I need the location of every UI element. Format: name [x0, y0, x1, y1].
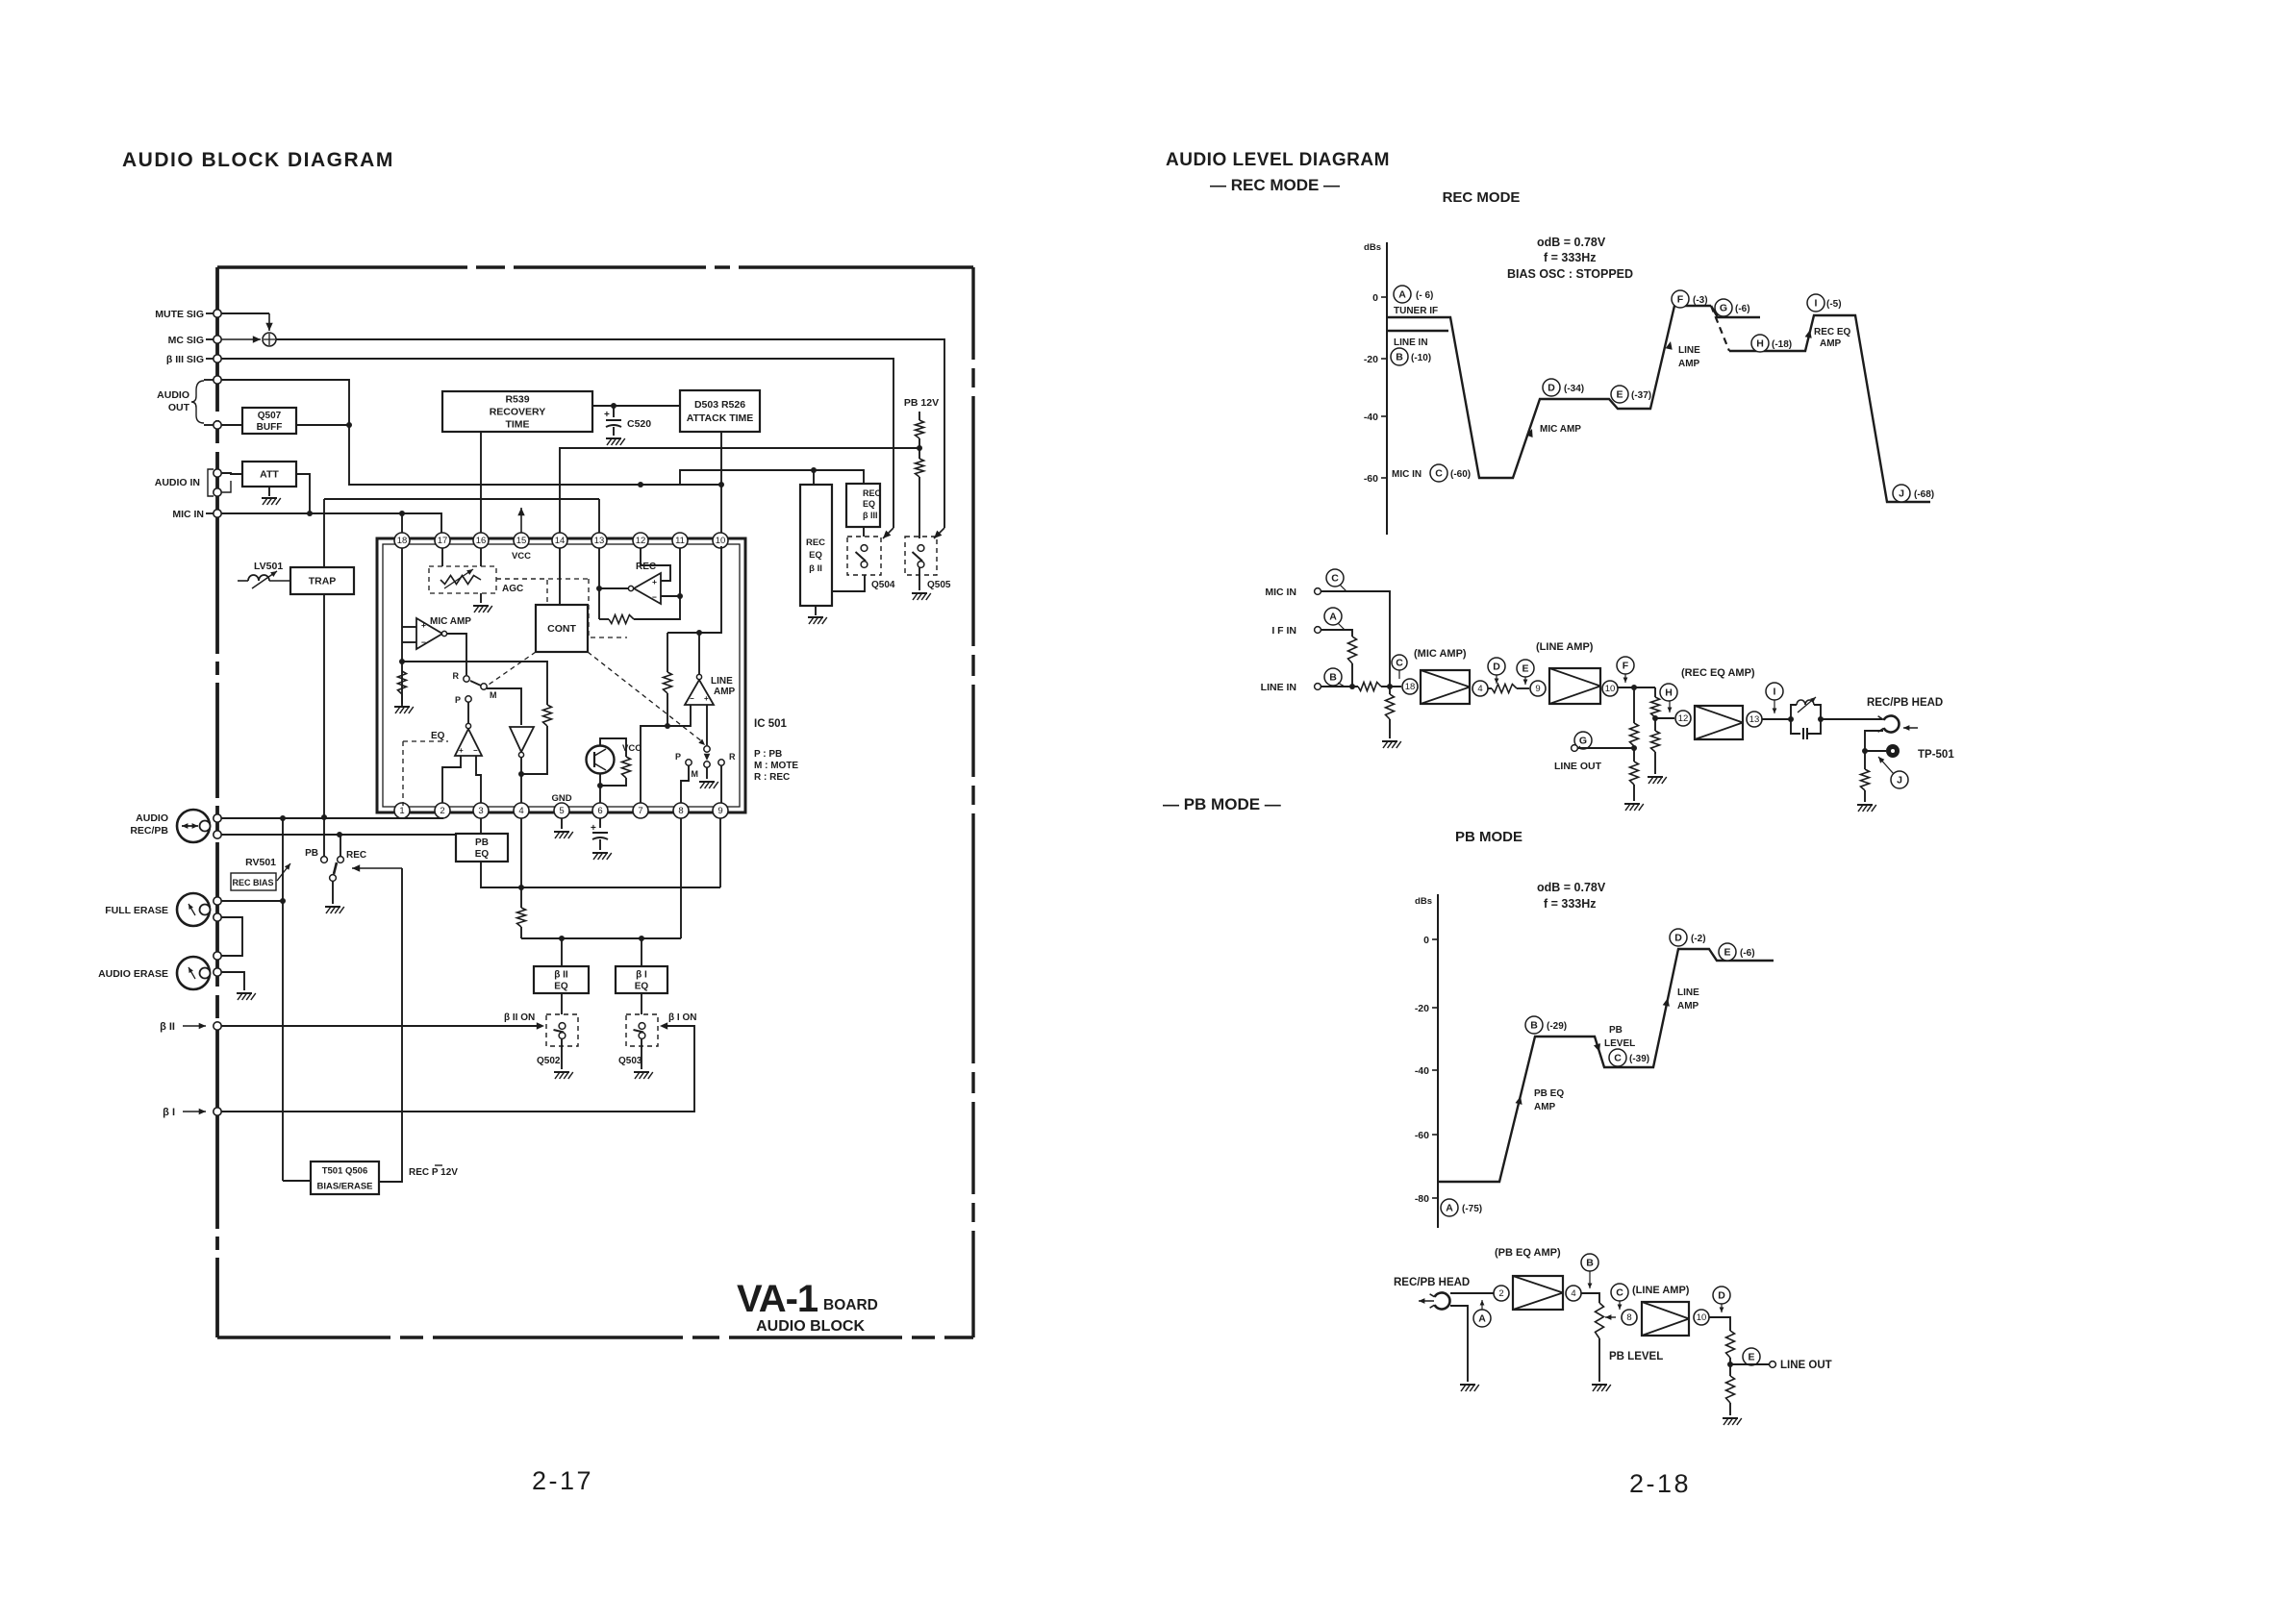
- point E (-37): [1611, 386, 1628, 403]
- svg-text:REC/PB HEAD: REC/PB HEAD: [1867, 697, 1943, 709]
- svg-text:EQ: EQ: [475, 849, 490, 860]
- svg-text:15: 15: [516, 536, 527, 546]
- capacitor under pin 6: [599, 818, 601, 828]
- svg-text:(-39): (-39): [1629, 1054, 1649, 1064]
- svg-text:+: +: [604, 410, 610, 420]
- RC parallel network (rec head peaking): [1791, 705, 1797, 719]
- svg-text:P : PB: P : PB: [754, 749, 782, 760]
- svg-text:Q502: Q502: [537, 1056, 561, 1066]
- svg-text:8: 8: [678, 806, 683, 816]
- svg-text:(-6): (-6): [1735, 304, 1750, 314]
- svg-text:ATTACK TIME: ATTACK TIME: [687, 412, 754, 424]
- svg-text:Q504: Q504: [871, 580, 895, 590]
- svg-text:H: H: [1665, 687, 1673, 699]
- pin 16 of IC501: [473, 533, 489, 548]
- wire FULL ERASE top to RV501 line: [221, 900, 283, 902]
- ground under pin 5: [561, 818, 563, 829]
- svg-text:AGC: AGC: [502, 584, 523, 594]
- svg-text:B: B: [1329, 672, 1337, 684]
- wire MIC IN into mixer: [1321, 591, 1390, 687]
- svg-text:8: 8: [1626, 1312, 1631, 1323]
- wire beta-II ON line to Q502: [221, 1025, 537, 1027]
- dashed control CONT to REC amp: [496, 578, 589, 580]
- svg-text:AUDIO: AUDIO: [136, 812, 168, 824]
- pin 18 of IC501: [394, 533, 410, 548]
- wire MUTE SIG to summing junction: [221, 312, 269, 314]
- block T501 Q506 BIAS/ERASE: [311, 1162, 379, 1194]
- divider resistor lower: [1729, 1364, 1731, 1376]
- svg-text:F: F: [1623, 661, 1629, 672]
- wire pin 4 through resistor: [520, 818, 522, 908]
- svg-text:FULL ERASE: FULL ERASE: [105, 905, 168, 916]
- svg-text:β II: β II: [554, 970, 568, 981]
- wire beta-III SIG line to Q504 control: [221, 359, 893, 528]
- svg-text:H: H: [1756, 338, 1764, 350]
- REC level trace: [1387, 306, 1711, 478]
- svg-text:LINE OUT: LINE OUT: [1554, 761, 1602, 772]
- svg-text:A: A: [1329, 612, 1337, 623]
- svg-text:M: M: [692, 769, 699, 779]
- svg-text:ATT: ATT: [260, 469, 279, 481]
- svg-text:PB LEVEL: PB LEVEL: [1609, 1351, 1663, 1362]
- R contact to pin 9: [718, 760, 724, 765]
- svg-text:(-60): (-60): [1450, 469, 1471, 480]
- wire transistor collector to VCC resistor: [600, 738, 626, 757]
- svg-text:β II: β II: [160, 1021, 175, 1033]
- svg-text:RECOVERY: RECOVERY: [490, 407, 546, 418]
- wire LINE AMP + input to M contact: [706, 705, 708, 745]
- pin 13 of IC501: [591, 533, 607, 548]
- ground under C520: [606, 437, 621, 439]
- ground under Q502: [561, 1038, 563, 1069]
- wire into pin 12: [1655, 717, 1674, 719]
- svg-text:AUDIO IN: AUDIO IN: [155, 477, 200, 488]
- svg-text:(-29): (-29): [1547, 1021, 1567, 1032]
- svg-text:AMP: AMP: [714, 687, 736, 697]
- wire AUDIO OUT upper path: [221, 380, 721, 485]
- wire REC select arrow from bias oscillator: [352, 867, 402, 869]
- capacitor C520: [613, 406, 615, 417]
- REC trace dashed to H: [1711, 306, 1729, 351]
- resistor to ground at mixer node: [1389, 687, 1391, 694]
- svg-text:AUDIO BLOCK DIAGRAM: AUDIO BLOCK DIAGRAM: [122, 149, 394, 171]
- buffer Q507: [242, 408, 296, 434]
- inverter amp: [510, 727, 534, 752]
- wire Q504 to REC EQ beta-II: [832, 575, 865, 591]
- wire MC SIG into summing junction: [221, 338, 261, 340]
- svg-text:EQ: EQ: [635, 982, 649, 992]
- svg-text:BIAS OSC : STOPPED: BIAS OSC : STOPPED: [1507, 267, 1633, 281]
- wire pin 3 into PB EQ: [480, 818, 482, 834]
- wire jog up to EQ feed line: [680, 470, 864, 485]
- wire MIC IN line to IC pins 18/17: [221, 513, 441, 533]
- point E marker and LINE OUT: [1743, 1348, 1760, 1365]
- wire feed to REC EQ beta-II box: [813, 470, 815, 485]
- svg-text:REC: REC: [636, 562, 656, 572]
- potentiometer PB LEVEL: [1596, 1303, 1604, 1338]
- block beta-II EQ: [534, 966, 589, 993]
- wire branch to pin 18: [401, 513, 403, 533]
- pin 10 (flow): [1602, 681, 1618, 696]
- svg-text:BOARD: BOARD: [823, 1297, 878, 1313]
- svg-text:f = 333Hz: f = 333Hz: [1544, 251, 1597, 264]
- svg-text:AMP: AMP: [1534, 1102, 1556, 1112]
- svg-text:+: +: [652, 577, 657, 587]
- switch Q505: [905, 537, 937, 575]
- AGC block (dashed) with variable resistor: [429, 566, 496, 593]
- resistor at transistor: [622, 757, 631, 778]
- svg-text:(- 6): (- 6): [1416, 290, 1433, 301]
- svg-text:E: E: [1616, 389, 1623, 401]
- point H marker: [1660, 684, 1677, 701]
- svg-text:β II: β II: [809, 563, 822, 574]
- pin 6 of IC501: [592, 803, 608, 818]
- svg-text:D503 R526: D503 R526: [694, 399, 745, 411]
- svg-text:0: 0: [1372, 292, 1378, 304]
- wire REC contact to head bottom line: [340, 835, 341, 857]
- svg-text:9: 9: [717, 806, 722, 816]
- wire PB EQ output line: [481, 862, 720, 887]
- svg-text:J: J: [1897, 775, 1902, 787]
- svg-text:6: 6: [597, 806, 602, 816]
- pin 11 of IC501: [672, 533, 688, 548]
- svg-text:E: E: [1748, 1352, 1754, 1363]
- svg-text:AMP: AMP: [1820, 338, 1842, 349]
- svg-text:CONT: CONT: [547, 623, 576, 635]
- svg-text:2: 2: [440, 806, 444, 816]
- svg-text:AUDIO: AUDIO: [157, 389, 189, 401]
- pin 5 of IC501: [554, 803, 569, 818]
- trap block TRAP: [290, 567, 354, 594]
- svg-text:5: 5: [559, 806, 564, 816]
- wire head to TP-501 divider: [1865, 731, 1883, 769]
- point C marker: [1326, 569, 1344, 587]
- svg-text:D: D: [1674, 933, 1682, 944]
- svg-text:M : MOTE: M : MOTE: [754, 761, 798, 771]
- pin 8 (PB flow): [1622, 1310, 1637, 1325]
- pin 3 of IC501: [473, 803, 489, 818]
- point C (-39): [1609, 1049, 1626, 1066]
- pin 9 (flow): [1530, 681, 1546, 696]
- resistor at LINE AMP input: [667, 633, 668, 672]
- svg-text:E: E: [1522, 663, 1528, 675]
- wire AUDIO IN to ATT: [221, 473, 242, 474]
- svg-text:AUDIO BLOCK: AUDIO BLOCK: [756, 1318, 865, 1335]
- svg-text:(LINE AMP): (LINE AMP): [1536, 641, 1594, 653]
- svg-text:β I: β I: [163, 1107, 175, 1118]
- svg-text:4: 4: [518, 806, 523, 816]
- svg-text:I: I: [1774, 687, 1776, 698]
- point D marker: [1488, 658, 1505, 675]
- svg-text:18: 18: [397, 536, 408, 546]
- REC trace LINE IN sub-level: [1387, 330, 1448, 332]
- pin 4 (flow): [1472, 681, 1488, 696]
- svg-text:BIAS/ERASE: BIAS/ERASE: [316, 1181, 372, 1191]
- wire pin 9 down: [719, 818, 721, 887]
- controller block CONT: [536, 605, 588, 652]
- wire pin 2 down to head line: [441, 817, 443, 819]
- svg-text:PB EQ: PB EQ: [1534, 1088, 1564, 1099]
- point B marker: [1324, 668, 1342, 686]
- svg-text:A: A: [1478, 1313, 1486, 1325]
- block R539 RECOVERY TIME: [442, 391, 592, 432]
- wire IF IN through resistor: [1321, 630, 1352, 637]
- wire pin11 internal: [679, 548, 681, 596]
- ground under Q503: [641, 1038, 642, 1069]
- svg-text:2: 2: [1498, 1288, 1503, 1299]
- svg-text:MIC IN: MIC IN: [1265, 587, 1296, 598]
- svg-text:BUFF: BUFF: [257, 422, 283, 433]
- ground under AGC: [480, 593, 482, 603]
- ground under REC EQ beta-II: [815, 606, 817, 615]
- svg-text:C: C: [1614, 1053, 1622, 1064]
- wire beta-I ON line to Q503: [221, 1026, 694, 1112]
- resistor on pin18 node: [398, 671, 407, 694]
- svg-text:0: 0: [1423, 935, 1429, 946]
- wire P contact to EQ amp: [467, 702, 469, 723]
- svg-text:+: +: [704, 694, 709, 703]
- wire MIC AMP output to R contact: [447, 634, 466, 675]
- pin 18 (flow): [1402, 679, 1418, 694]
- svg-text:−: −: [473, 746, 478, 755]
- wire after LINE AMP: [1618, 687, 1655, 688]
- svg-text:PB: PB: [305, 848, 318, 859]
- point B (-29): [1525, 1016, 1543, 1034]
- svg-text:PB: PB: [475, 837, 489, 848]
- PB trace arrows: [1516, 1096, 1522, 1105]
- svg-text:GND: GND: [551, 793, 571, 804]
- op-amp LINE AMP: [685, 680, 714, 705]
- svg-text:R: R: [453, 671, 460, 681]
- svg-text:I: I: [1815, 298, 1818, 310]
- wire TRAP down to PB contact: [323, 594, 325, 856]
- wire AUDIO ERASE bottom to ground: [221, 972, 244, 990]
- resistor feedback: [543, 705, 552, 726]
- svg-text:IC 501: IC 501: [754, 718, 787, 730]
- svg-text:TIME: TIME: [505, 419, 529, 431]
- wire pin14 supply line: [560, 448, 919, 533]
- label REC BIAS (boxed): [231, 873, 276, 890]
- point D (-2): [1670, 929, 1687, 946]
- point I marker: [1766, 683, 1783, 700]
- svg-text:TUNER IF: TUNER IF: [1394, 306, 1438, 316]
- wire EQ + input to pin 2: [442, 756, 461, 803]
- ground under PB/REC switch: [332, 881, 334, 904]
- resistor to ground under TP-501: [1861, 769, 1870, 790]
- svg-text:PB: PB: [1609, 1025, 1623, 1036]
- EQ selector feed line: [521, 937, 681, 939]
- wire pin13 to REC output: [598, 548, 600, 619]
- svg-text:P: P: [455, 695, 461, 705]
- svg-text:-40: -40: [1364, 412, 1378, 423]
- svg-text:B: B: [1530, 1020, 1538, 1032]
- svg-text:3: 3: [478, 806, 483, 816]
- svg-text:14: 14: [555, 536, 566, 546]
- svg-text:1: 1: [399, 806, 404, 816]
- REC trace G branch: [1711, 306, 1760, 317]
- svg-text:E: E: [1724, 947, 1730, 959]
- svg-text:LINE OUT: LINE OUT: [1780, 1360, 1832, 1371]
- svg-text:VCC: VCC: [622, 743, 642, 754]
- pin 2 of IC501: [435, 803, 450, 818]
- wire pin14 into CONT: [559, 548, 561, 605]
- svg-text:R539: R539: [505, 394, 529, 406]
- svg-text:MIC IN: MIC IN: [1392, 469, 1422, 480]
- svg-text:Q505: Q505: [927, 580, 951, 590]
- page border (dash-dot frame of VA-1 board): [217, 265, 973, 268]
- block D503 R526 ATTACK TIME: [680, 390, 760, 432]
- svg-text:-60: -60: [1364, 473, 1378, 485]
- test point TP-501: [1865, 750, 1886, 752]
- svg-text:(MIC AMP): (MIC AMP): [1414, 648, 1467, 660]
- svg-text:4: 4: [1571, 1288, 1575, 1299]
- PB level trace: [1438, 949, 1774, 1182]
- svg-text:REC P 12V: REC P 12V: [409, 1167, 458, 1178]
- dashed EQ region: [403, 740, 448, 742]
- wire pin10 internal to LINE AMP output: [667, 546, 721, 633]
- svg-text:(-68): (-68): [1914, 489, 1934, 500]
- point F (-3): [1672, 290, 1689, 308]
- point C marker (flow): [1611, 1284, 1628, 1301]
- svg-text:B: B: [1586, 1258, 1594, 1269]
- svg-text:D: D: [1548, 383, 1555, 394]
- pin 13 (flow): [1747, 712, 1762, 727]
- point A (-6): [1394, 286, 1411, 303]
- svg-text:13: 13: [1749, 714, 1760, 725]
- point A (-75): [1441, 1199, 1458, 1216]
- dashed control AGC to CONT: [496, 579, 547, 605]
- svg-text:odB = 0.78V: odB = 0.78V: [1537, 236, 1606, 249]
- point A marker (flow): [1473, 1310, 1491, 1327]
- wire head to pin 2: [1450, 1292, 1494, 1294]
- point D marker (flow): [1713, 1287, 1730, 1304]
- svg-text:β III: β III: [863, 511, 878, 520]
- svg-text:G: G: [1720, 303, 1727, 314]
- block PB EQ: [456, 834, 508, 862]
- svg-text:LINE: LINE: [711, 676, 733, 687]
- wire transistor emitter to pin 6: [599, 773, 601, 803]
- divider resistor chain at LINE OUT node: [1633, 687, 1635, 723]
- pin 17 of IC501: [435, 533, 450, 548]
- pin 10 of IC501: [713, 533, 728, 548]
- svg-text:(-34): (-34): [1564, 384, 1584, 394]
- svg-text:— PB MODE —: — PB MODE —: [1163, 795, 1281, 813]
- wire EQ - input to pin 3: [476, 756, 481, 803]
- wire Q507 output: [296, 424, 349, 426]
- svg-text:−: −: [421, 637, 426, 647]
- svg-text:Q507: Q507: [258, 411, 282, 421]
- resistor to Q505: [916, 459, 924, 477]
- svg-text:EQ: EQ: [554, 982, 568, 992]
- svg-text:LINE: LINE: [1678, 345, 1700, 356]
- divider resistor upper: [1726, 1331, 1735, 1358]
- pin 12 of IC501: [633, 533, 648, 548]
- svg-text:EQ: EQ: [431, 731, 445, 741]
- svg-text:LINE: LINE: [1677, 987, 1699, 998]
- svg-text:(-10): (-10): [1411, 353, 1431, 363]
- svg-text:dBs: dBs: [1364, 242, 1381, 253]
- svg-text:LEVEL: LEVEL: [1604, 1038, 1635, 1049]
- svg-text:TRAP: TRAP: [309, 576, 337, 587]
- svg-text:(-2): (-2): [1691, 934, 1706, 944]
- block beta-I EQ: [616, 966, 667, 993]
- svg-text:MC SIG: MC SIG: [168, 335, 204, 346]
- svg-text:17: 17: [438, 536, 448, 546]
- svg-text:RV501: RV501: [245, 857, 276, 868]
- attenuator ATT: [242, 462, 296, 487]
- svg-text:AUDIO LEVEL DIAGRAM: AUDIO LEVEL DIAGRAM: [1166, 150, 1390, 170]
- svg-text:PB MODE: PB MODE: [1455, 829, 1522, 845]
- resistor below PB 12V: [919, 412, 920, 420]
- wire pin 4 to PB LEVEL pot: [1581, 1293, 1599, 1303]
- op-amp MIC AMP: [416, 618, 442, 649]
- svg-text:-40: -40: [1415, 1065, 1429, 1077]
- svg-text:VCC: VCC: [512, 551, 531, 562]
- resistor to ground on H branch: [1654, 718, 1656, 731]
- svg-text:11: 11: [675, 536, 685, 546]
- pin 14 of IC501: [552, 533, 567, 548]
- svg-text:2-17: 2-17: [532, 1466, 593, 1495]
- svg-text:REC MODE: REC MODE: [1443, 189, 1521, 206]
- VCC arrow above pin 15: [520, 508, 522, 533]
- svg-text:9: 9: [1535, 684, 1540, 694]
- wire pin17 into AGC: [441, 548, 443, 566]
- svg-text:D: D: [1493, 662, 1500, 673]
- svg-text:18: 18: [1405, 682, 1416, 692]
- svg-text:4: 4: [1477, 684, 1482, 694]
- REC trace H to J: [1729, 315, 1930, 502]
- point J marker: [1891, 771, 1908, 788]
- pin 7 of IC501: [633, 803, 648, 818]
- svg-text:R : REC: R : REC: [754, 772, 790, 783]
- svg-text:I F IN: I F IN: [1271, 625, 1296, 637]
- wire D503 to pin 10: [720, 432, 722, 533]
- wire pin 10 to output divider: [1709, 1317, 1730, 1331]
- ground under pin18 resistor: [394, 706, 410, 708]
- svg-text:J: J: [1899, 488, 1904, 500]
- svg-text:12: 12: [1678, 713, 1689, 724]
- svg-text:−: −: [690, 694, 694, 703]
- svg-text:C520: C520: [627, 418, 651, 430]
- wire LINE AMP - input to pin 7: [641, 705, 691, 803]
- svg-text:REC: REC: [346, 850, 366, 861]
- svg-text:16: 16: [476, 536, 487, 546]
- svg-text:P: P: [675, 752, 681, 762]
- svg-text:C: C: [1331, 573, 1339, 585]
- pin 8 of IC501: [673, 803, 689, 818]
- svg-text:β III SIG: β III SIG: [166, 354, 204, 365]
- svg-text:A: A: [1398, 289, 1406, 301]
- svg-text:-20: -20: [1364, 354, 1378, 365]
- IC U501 outline (IC501): [377, 538, 745, 812]
- svg-text:β I ON: β I ON: [668, 1012, 696, 1023]
- switch Q504: [847, 537, 881, 575]
- wire AUDIO OUT lower to Q507: [221, 424, 242, 426]
- svg-text:-60: -60: [1415, 1130, 1429, 1141]
- point J (-68): [1893, 485, 1910, 502]
- svg-text:C: C: [1435, 468, 1443, 480]
- svg-text:REC: REC: [863, 488, 882, 498]
- feedback resistor of REC amp: [599, 618, 609, 620]
- svg-text:MIC AMP: MIC AMP: [1540, 424, 1581, 435]
- point H (-18): [1751, 335, 1769, 352]
- svg-text:−: −: [652, 592, 657, 602]
- svg-text:AMP: AMP: [1677, 1001, 1699, 1012]
- svg-text:REC/PB HEAD: REC/PB HEAD: [1394, 1277, 1470, 1288]
- wire LINE IN bus: [1321, 686, 1358, 687]
- transistor inside IC: [587, 746, 615, 774]
- P contact to pin 8: [686, 760, 692, 765]
